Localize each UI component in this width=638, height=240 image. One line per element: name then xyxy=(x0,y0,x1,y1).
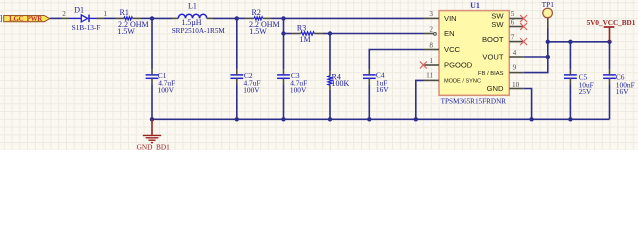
value 16V of C6 xyxy=(616,87,629,96)
wire C6 branch down xyxy=(609,42,611,69)
svg-text:R2: R2 xyxy=(252,8,261,17)
svg-text:100K: 100K xyxy=(332,79,350,88)
svg-text:SW: SW xyxy=(491,11,504,20)
wire VCC corner xyxy=(369,50,423,70)
wire L1 to node C2 xyxy=(213,17,237,19)
designator TP1 xyxy=(542,0,555,9)
pin number 7 xyxy=(511,34,515,42)
wire TP1 drop xyxy=(547,28,549,42)
designator C2 xyxy=(244,71,253,80)
svg-text:D1: D1 xyxy=(74,5,84,14)
wire node C1 to L1 xyxy=(152,17,172,19)
svg-text:SRP2510A-1R5M: SRP2510A-1R5M xyxy=(172,27,226,35)
pin 1 PGOOD stub xyxy=(425,64,440,66)
value 100V of C3 xyxy=(290,86,307,95)
pin name FB / BIAS xyxy=(478,71,504,77)
wire node C2 to R2 xyxy=(237,17,246,19)
junction gnd at C5 xyxy=(568,117,572,121)
pin number 10 xyxy=(512,81,520,89)
wire C2 to gnd bus xyxy=(236,84,238,119)
wire node C1 down xyxy=(151,18,153,69)
svg-text:VCC: VCC xyxy=(444,45,461,54)
wire C3 to gnd bus xyxy=(283,84,285,119)
pin number 6 xyxy=(511,19,515,27)
op-amp U1 body (TPSM365R15FRDNR regulator) xyxy=(439,11,509,96)
value 25V of C5 xyxy=(579,87,592,96)
junction at TP1 drop xyxy=(546,40,550,44)
value 1.5W of R2 xyxy=(249,27,267,36)
value 1.5uH of L1 xyxy=(181,18,202,27)
svg-text:16V: 16V xyxy=(376,85,389,94)
value 10uF of C5 xyxy=(579,80,594,89)
capacitor C2 xyxy=(230,69,243,84)
svg-text:7: 7 xyxy=(511,34,515,42)
value SRP2510A-1R5M of L1 xyxy=(172,27,226,35)
pin number 8 xyxy=(429,41,433,49)
value 4.7uF of C3 xyxy=(290,78,307,87)
wire R3 to node B xyxy=(323,33,330,35)
svg-text:100V: 100V xyxy=(158,86,175,95)
svg-text:MODE / SYNC: MODE / SYNC xyxy=(444,79,481,85)
wire C1 to gnd bus xyxy=(151,84,153,119)
junction gnd at IC GND xyxy=(529,117,533,121)
svg-text:100V: 100V xyxy=(290,86,307,95)
svg-text:1M: 1M xyxy=(300,35,311,44)
value 16V of C4 xyxy=(376,85,389,94)
value 100nF of C6 xyxy=(616,80,635,89)
pin name VCC xyxy=(444,45,461,54)
pin name VOUT xyxy=(482,53,503,62)
capacitor C1 xyxy=(146,69,159,84)
wire VOUT bus xyxy=(548,41,610,43)
svg-text:11: 11 xyxy=(426,72,433,80)
pin number 5 xyxy=(511,10,515,18)
svg-text:2: 2 xyxy=(429,25,433,33)
wire GND pin corner xyxy=(524,89,532,120)
wire node A down to C3 xyxy=(283,34,285,70)
designator C5 xyxy=(579,72,588,81)
pin 9 FB/BIAS stub xyxy=(509,72,524,74)
wire FB corner to VOUT node xyxy=(524,57,548,73)
svg-text:R1: R1 xyxy=(120,8,129,17)
value 4.7uF of C2 xyxy=(244,78,261,87)
svg-text:1.5µH: 1.5µH xyxy=(181,18,202,27)
wire node A down xyxy=(283,18,285,33)
svg-text:25V: 25V xyxy=(579,87,592,96)
wire node A to R3 xyxy=(284,33,292,35)
junction gnd at R4 xyxy=(328,117,332,121)
pin number 3 xyxy=(429,10,433,18)
junction gnd at MODE wire xyxy=(414,117,418,121)
pin 6 SW stub xyxy=(509,26,524,28)
ground GND_BD1 xyxy=(143,119,161,142)
svg-text:8: 8 xyxy=(429,41,433,49)
wire C5 branch down xyxy=(569,42,571,69)
pin number 4 xyxy=(513,49,517,57)
pin 3 VIN stub xyxy=(424,17,440,19)
svg-text:FB / BIAS: FB / BIAS xyxy=(478,71,504,77)
svg-text:3: 3 xyxy=(429,10,433,18)
designator U1 xyxy=(470,1,480,10)
svg-text:L1: L1 xyxy=(188,2,197,11)
resistor R4 xyxy=(328,71,332,90)
port LGC_PWR xyxy=(4,15,50,23)
junction node A at EN row xyxy=(281,31,285,35)
wire C6 to gnd bus corner xyxy=(609,84,611,119)
pin 4 VOUT stub xyxy=(509,56,524,58)
svg-text:LGC_PWR: LGC_PWR xyxy=(9,15,43,23)
wire port to D1 xyxy=(50,17,62,19)
svg-text:S1B-13-F: S1B-13-F xyxy=(72,23,101,32)
svg-text:1.5W: 1.5W xyxy=(117,27,135,36)
wire D1 to R1 xyxy=(104,17,116,19)
junction at C5 branch xyxy=(568,40,572,44)
pin number 1 of D1 xyxy=(104,10,108,18)
no-connect X on SW pin 6 xyxy=(520,23,526,29)
power port 5V0_VCC_BD1 xyxy=(604,27,615,42)
part number TPSM365R15FRDNR xyxy=(441,97,507,105)
no-connect X on PGOOD xyxy=(420,62,426,68)
wire R4 to gnd bus xyxy=(329,90,331,119)
svg-text:1: 1 xyxy=(104,10,108,18)
pin number 9 xyxy=(513,63,517,71)
value 2.2 OHM of R1 xyxy=(118,20,149,29)
designator C4 xyxy=(376,70,385,79)
junction gnd at C4 xyxy=(367,117,371,121)
wire ground bus xyxy=(152,118,610,120)
pin 5 SW stub xyxy=(509,18,524,20)
wire R1 to node C1 xyxy=(141,17,152,19)
pin name GND xyxy=(487,84,504,93)
capacitor C3 xyxy=(277,69,290,84)
svg-text:1: 1 xyxy=(429,57,433,65)
resistor R1 xyxy=(116,17,142,20)
inductor L1 xyxy=(172,14,213,18)
junction gnd at C2 xyxy=(235,117,239,121)
svg-text:5V0_VCC_BD1: 5V0_VCC_BD1 xyxy=(587,19,636,27)
designator R4 xyxy=(332,72,341,81)
wire node C2 down xyxy=(236,18,238,69)
pin 8 VCC stub xyxy=(424,49,440,51)
test point TP1 xyxy=(543,8,553,28)
svg-text:R3: R3 xyxy=(297,23,306,32)
designator C3 xyxy=(291,71,300,80)
wire node B down to R4 xyxy=(329,34,331,72)
value 4.7uF of C1 xyxy=(158,78,175,87)
wire C4 to gnd bus xyxy=(368,84,370,119)
value 2.2 OHM of R2 xyxy=(249,20,280,29)
pin name SW (pin 5) xyxy=(491,11,504,20)
junction at power port xyxy=(607,40,611,44)
pin name PGOOD xyxy=(444,61,473,70)
wire MODE/SYNC corner xyxy=(416,80,424,119)
svg-text:6: 6 xyxy=(511,19,515,27)
pin 11 MODE/SYNC stub xyxy=(424,79,440,81)
value 100V of C2 xyxy=(243,86,260,95)
pin 7 BOOT stub xyxy=(509,41,524,43)
junction gnd at C3 xyxy=(281,117,285,121)
wire node B to EN pin xyxy=(330,33,424,35)
value 1.5W of R1 xyxy=(117,27,135,36)
pin number 11 xyxy=(426,72,433,80)
designator C6 xyxy=(616,72,625,81)
svg-text:5: 5 xyxy=(511,10,515,18)
wire VOUT pin to node xyxy=(524,56,548,58)
svg-text:2: 2 xyxy=(62,10,66,18)
pin number 2 of D1 xyxy=(62,10,66,18)
svg-text:EN: EN xyxy=(444,29,455,38)
svg-text:TP1: TP1 xyxy=(542,0,555,9)
wire VOUT node up xyxy=(547,42,549,57)
junction gnd at C1 xyxy=(150,117,154,121)
net label fragment (cropped) at sheet edge xyxy=(0,13,3,23)
value 100V of C1 xyxy=(158,86,175,95)
wire node A to VIN pin xyxy=(284,17,424,19)
svg-text:1.5W: 1.5W xyxy=(249,27,267,36)
resistor R2 xyxy=(245,17,271,20)
designator R2 xyxy=(252,8,261,17)
pin name MODE / SYNC xyxy=(444,79,481,85)
svg-text:VIN: VIN xyxy=(444,14,457,23)
value S1B-13-F of D1 xyxy=(72,23,101,32)
diode D1 xyxy=(62,15,105,23)
svg-text:TPSM365R15FRDNR: TPSM365R15FRDNR xyxy=(441,97,507,105)
junction at C2 branch xyxy=(235,16,239,20)
svg-text:PGOOD: PGOOD xyxy=(444,61,473,70)
svg-text:U1: U1 xyxy=(470,1,480,10)
pin number 1 xyxy=(429,57,433,65)
value 1uF of C4 xyxy=(376,78,388,87)
svg-text:]: ] xyxy=(0,13,3,23)
pin number 2 xyxy=(429,25,433,33)
no-connect X on BOOT xyxy=(520,38,526,44)
net label GND_BD1 xyxy=(137,142,171,151)
svg-text:16V: 16V xyxy=(616,87,629,96)
svg-text:BOOT: BOOT xyxy=(482,35,504,44)
value 1M of R3 xyxy=(300,35,311,44)
svg-text:GND: GND xyxy=(487,84,504,93)
pin 2 EN stub with bubble xyxy=(424,33,437,36)
junction node B xyxy=(328,31,332,35)
svg-text:GND_BD1: GND_BD1 xyxy=(137,142,171,150)
pin name SW (pin 6) xyxy=(491,20,504,29)
junction node A xyxy=(281,16,285,20)
junction at C1 branch xyxy=(150,16,154,20)
svg-text:VOUT: VOUT xyxy=(482,53,503,62)
svg-text:9: 9 xyxy=(513,63,517,71)
wire R2 to node A xyxy=(272,17,284,19)
svg-text:10: 10 xyxy=(512,81,520,89)
no-connect X on SW pin 5 xyxy=(520,15,526,21)
designator R3 xyxy=(297,23,306,32)
pin name EN xyxy=(444,29,455,38)
wire C5 to gnd bus xyxy=(569,84,571,119)
capacitor C4 xyxy=(363,69,376,84)
capacitor C6 xyxy=(603,69,616,84)
svg-text:4: 4 xyxy=(513,49,517,57)
designator L1 xyxy=(188,2,197,11)
svg-text:SW: SW xyxy=(491,20,504,29)
net label 5V0_VCC_BD1 xyxy=(587,19,636,27)
pin 10 GND stub xyxy=(509,88,524,90)
pin name BOOT xyxy=(482,35,504,44)
designator R1 xyxy=(120,8,129,17)
pin name VIN xyxy=(444,14,457,23)
junction VOUT node xyxy=(546,55,550,59)
designator C1 xyxy=(158,71,167,80)
svg-text:100V: 100V xyxy=(243,86,260,95)
capacitor C5 xyxy=(564,69,577,84)
resistor R3 xyxy=(291,32,323,35)
value 100K of R4 xyxy=(332,79,350,88)
designator D1 xyxy=(74,5,84,14)
